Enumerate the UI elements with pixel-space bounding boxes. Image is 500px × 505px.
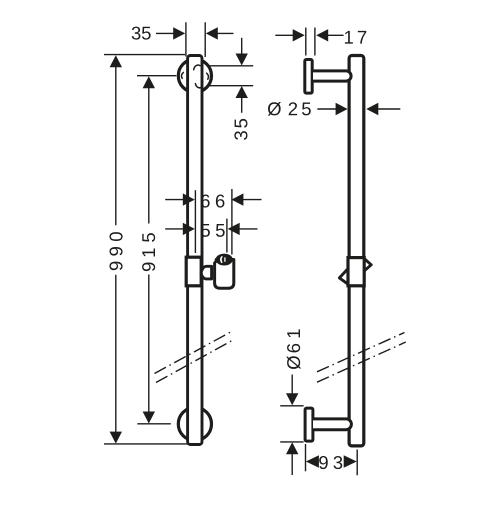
slider holder cylinder (left view) <box>215 260 234 289</box>
dim 990: line lower <box>115 275 117 432</box>
dim 66: line left <box>165 199 183 201</box>
dim 17: ext line right <box>314 28 316 56</box>
dim d61: ext line lower <box>280 441 303 443</box>
dim 55: ext line right <box>226 219 228 253</box>
wall bracket bottom (left view) <box>178 407 211 440</box>
arrow 55 right (points left) <box>228 223 240 235</box>
hose axis dash-dot lines (left view) <box>155 332 234 383</box>
arrow 66 left (points right) <box>183 193 195 205</box>
hose axis dash-dot lines (side view) <box>317 333 406 383</box>
label d25 <box>268 102 311 116</box>
arrow 990 top (points up) <box>110 55 122 67</box>
dim 66: line right <box>243 199 262 201</box>
dim 93: ext line right <box>356 450 358 476</box>
label 35 top <box>132 27 151 40</box>
dim 35 top: line right <box>217 32 234 34</box>
dim d61: line lower <box>291 454 293 476</box>
dim 915: line lower <box>148 275 150 412</box>
label d61 (rotated) <box>287 329 301 369</box>
dim 66: ext line left (rail centre) <box>194 190 196 253</box>
label 915 (rotated) <box>142 233 155 271</box>
dim 55: line right <box>239 228 257 230</box>
arrows right view <box>286 29 378 468</box>
dim 35 top: line left <box>156 32 175 34</box>
dim 55: line left <box>165 228 183 230</box>
dim 17: line right <box>328 34 344 36</box>
dim 990: top ext line <box>104 54 185 56</box>
arrows left view <box>110 27 248 443</box>
dim 35 vert: lower line to label <box>241 97 243 113</box>
holder hole highlight notch <box>220 257 223 262</box>
arrow d25 right (points left) <box>366 103 378 115</box>
arm bottom (side view) <box>313 419 351 430</box>
dim 915: bottom ext line <box>137 423 171 425</box>
dim 35 top: ext line left <box>185 22 187 56</box>
wall bracket top (left view) <box>178 59 211 92</box>
dim d61: ext line upper <box>280 405 303 407</box>
arrow 35-vert lower (points up) <box>236 86 248 98</box>
arrow 990 bottom (points down) <box>110 432 122 444</box>
dim 35 vert: ext line upper <box>209 65 253 67</box>
label 93 <box>319 456 342 469</box>
label 66 <box>201 194 224 207</box>
arrow 35-top right (points left) <box>206 27 218 39</box>
dim d25: line left <box>317 108 336 110</box>
label 35 vertical (rotated) <box>234 119 247 140</box>
slider lever knob <box>201 266 211 279</box>
arrow 17 left (points right) <box>293 29 305 41</box>
holder hole inner tick <box>224 258 226 261</box>
arrow 55 left (points right) <box>183 223 195 235</box>
rail (left view) <box>188 56 202 445</box>
arrow d61 lower (points up) <box>286 442 298 454</box>
dim 35 vert: upper overshoot line <box>241 38 243 55</box>
arrow 66 right (points left) <box>231 193 243 205</box>
arrow 93 left (points left) <box>306 455 319 468</box>
holder hole (dark ellipse) <box>217 255 232 265</box>
dim 35 vert: ext line lower <box>209 85 253 87</box>
wall plate bottom (side view) <box>305 408 313 441</box>
slider body (left view) <box>186 257 201 286</box>
arrow d61 upper (points down) <box>286 393 298 405</box>
arrow 35-top left (points right) <box>173 27 185 39</box>
arrow 93 right (points right) <box>344 455 357 468</box>
dim 990: bottom ext line <box>104 443 188 445</box>
dim 17: ext line left <box>305 28 307 56</box>
slider left tab (side view) <box>339 269 348 285</box>
slider body (side view) <box>348 258 364 286</box>
slider right tab (side view) <box>365 259 372 271</box>
arrow 915 bottom (points down) <box>143 412 155 424</box>
wall plate top (side view) <box>305 60 312 94</box>
dim 35 top: ext line right <box>204 22 206 57</box>
dim d25: line right <box>378 108 401 110</box>
arrow d25 left (points right) <box>336 103 348 115</box>
rail (side view) <box>349 56 364 446</box>
arrow 17 right (points left) <box>316 29 328 41</box>
arrow 915 top (points up) <box>143 76 155 88</box>
label 55 <box>201 224 225 237</box>
arrow 35-vert upper (points down) <box>236 54 248 66</box>
dim d61: line upper <box>291 375 293 395</box>
dim 17: line left <box>275 34 293 36</box>
label 17 <box>345 31 366 44</box>
arm top (side view) <box>313 71 351 81</box>
dim 66: ext line right <box>231 189 233 255</box>
bracket squiggle marks top <box>181 65 208 88</box>
dim 93: ext line left <box>305 444 307 471</box>
label 990 (rotated) <box>109 232 122 270</box>
dim 990: line upper <box>115 66 117 225</box>
dim 915: line upper <box>148 87 150 223</box>
dim 915: top ext line <box>137 75 176 77</box>
